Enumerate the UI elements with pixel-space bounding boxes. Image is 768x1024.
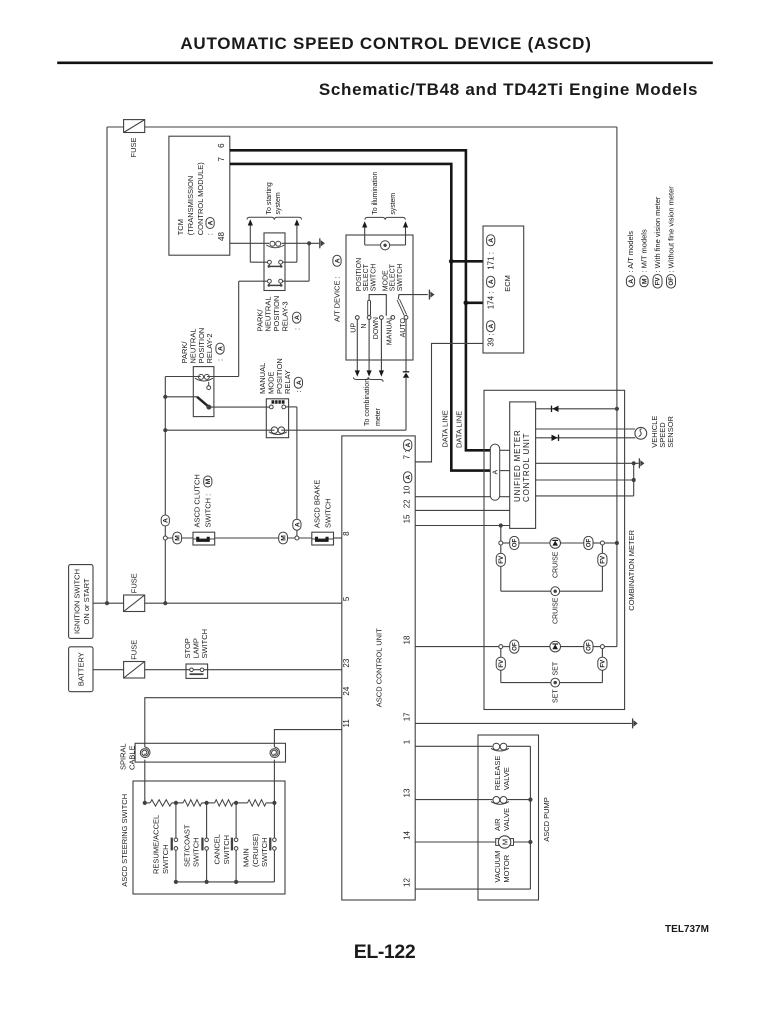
svg-text:24: 24 — [342, 686, 351, 695]
wire: ASCD pin 11 to spiral cable — [274, 730, 341, 747]
svg-text:A: A — [294, 315, 301, 320]
wire: spiral cable right to steering switch rail — [273, 760, 275, 803]
wire: clutch switch to brake switch — [215, 537, 312, 539]
manual mode relay coil — [269, 432, 287, 435]
wire: ignition switch to fuse — [93, 602, 124, 604]
position select switch UP contact — [355, 316, 359, 320]
svg-text:A: A — [296, 380, 303, 385]
svg-text:M: M — [641, 278, 648, 284]
svg-text:: With fine vision meter: : With fine vision meter — [653, 196, 662, 272]
SET LED indicator — [550, 641, 561, 652]
ground (unified meter) — [639, 458, 644, 468]
svg-text:OF: OF — [586, 538, 593, 547]
release valve coil — [491, 748, 509, 751]
legend: M = M/T models — [640, 276, 648, 287]
svg-text:: A/T models: : A/T models — [626, 231, 635, 273]
svg-text:11: 11 — [342, 719, 351, 728]
steering switch resistor rail — [145, 802, 150, 804]
fuse F3 (battery) — [124, 662, 145, 679]
relay-2 switch lever — [165, 396, 197, 398]
svg-text:18: 18 — [402, 635, 411, 644]
svg-text::: : — [216, 359, 225, 361]
legend: A = A/T models — [626, 276, 634, 287]
svg-text:CRUISE: CRUISE — [553, 597, 560, 624]
spiral symbol left — [140, 747, 150, 757]
label: To combination meter — [354, 377, 384, 382]
svg-text:10 :: 10 : — [402, 481, 411, 494]
wire: relay-2 output to manual mode relay contact — [209, 406, 270, 408]
svg-text:A: A — [488, 324, 495, 329]
legend: FV = with fine vision meter — [653, 275, 662, 289]
wire: pin15 drop to CRUISE row — [500, 526, 502, 542]
wire: TCM pin 48 to relay-3 coil — [230, 242, 269, 244]
ASCD control unit box — [342, 436, 415, 900]
mode select switch MANUAL contact — [391, 316, 395, 320]
wire: data line from TCM pin 7 (thick) — [230, 164, 491, 471]
svg-text:14: 14 — [402, 830, 411, 839]
svg-text:1: 1 — [402, 739, 411, 744]
SET FV branch right — [601, 670, 603, 682]
wire: N contact to combination meter — [368, 319, 370, 370]
wire: DOWN contact to combination meter — [380, 319, 382, 370]
svg-text:SET: SET — [553, 689, 560, 703]
wire: battery to fuse — [93, 669, 124, 671]
oval A above clutch row — [161, 515, 169, 526]
svg-text:OF: OF — [586, 642, 593, 651]
wire: ASCD pin 14 to vacuum motor — [415, 841, 498, 843]
park/neutral position relay-2 box — [193, 367, 214, 417]
svg-text:A: A — [628, 279, 635, 284]
CRUISE bulb rail — [501, 590, 551, 592]
svg-text:EL-122: EL-122 — [354, 941, 416, 963]
wire: fuse to stop lamp switch — [145, 669, 186, 671]
svg-text:6: 6 — [217, 143, 226, 148]
svg-text:12: 12 — [402, 878, 411, 887]
main (cruise) switch — [273, 803, 275, 838]
vacuum motor — [496, 839, 499, 846]
illumination lamp — [365, 244, 381, 246]
wire: ASCD pin 13 to air valve — [415, 799, 492, 801]
svg-text:DOWN: DOWN — [373, 317, 380, 339]
wire: UP contact to combination meter — [356, 319, 358, 370]
svg-text:A: A — [493, 470, 500, 475]
relay-3 coil — [266, 245, 284, 248]
svg-text::: : — [292, 328, 301, 330]
wire: unified meter aux 1 — [536, 479, 634, 481]
park/neutral position relay-3 box — [264, 233, 285, 291]
wire: relay-3 contact to starting system (right arrow) — [283, 261, 297, 263]
svg-text:A: A — [208, 220, 215, 225]
unified meter control unit box — [510, 402, 536, 529]
wire: ASCD pin 15 to unified meter — [415, 525, 510, 527]
ground (pin 17) — [633, 718, 638, 728]
TCM (transmission control module) box — [169, 136, 230, 255]
svg-text:A: A — [488, 238, 495, 243]
svg-text:UP: UP — [350, 323, 357, 333]
svg-text:A: A — [217, 346, 224, 351]
svg-text:M: M — [500, 839, 509, 845]
relay-2 coil — [195, 378, 213, 381]
svg-text:CRUISE: CRUISE — [553, 551, 560, 578]
svg-text:A: A — [163, 518, 170, 523]
SET FV branch left — [500, 649, 502, 658]
svg-text:MANUAL: MANUAL — [387, 316, 394, 345]
wire: fuse to ASCD pin 5 — [145, 602, 342, 604]
svg-text:N: N — [361, 324, 368, 329]
CRUISE LED indicator — [550, 538, 561, 549]
wire: unified meter to power feed (diode) — [536, 408, 617, 410]
svg-text:DATA LINE: DATA LINE — [441, 410, 450, 447]
manual mode relay contact bar — [272, 400, 285, 403]
mode select switch AUTO contact + lever — [404, 316, 408, 320]
wire: SET row to power vertical — [604, 646, 617, 648]
svg-text:39 :: 39 : — [487, 333, 496, 346]
wire: fuse supply top rail — [107, 126, 124, 128]
pump common rail — [529, 746, 531, 889]
svg-text:7: 7 — [217, 157, 226, 162]
svg-text:VACUUMMOTOR: VACUUMMOTOR — [493, 851, 511, 883]
svg-text:OF: OF — [512, 642, 519, 651]
relay-2 fixed contact — [207, 386, 211, 390]
oval M on brake row — [279, 532, 288, 544]
wire: data line from TCM pin 6 (thick) — [230, 150, 491, 450]
svg-text:SPIRALCABLE: SPIRALCABLE — [119, 743, 137, 770]
air valve coil — [491, 802, 509, 805]
wire: right supply drop to meter lamps — [616, 127, 618, 647]
svg-text:ASCD PUMP: ASCD PUMP — [542, 797, 551, 842]
wire: CRUISE row to power vertical — [604, 542, 617, 544]
wire: unified meter to speed sensor (lower, diode) — [536, 437, 636, 439]
wire: vertical joining aux wires — [633, 463, 635, 496]
ground (relay-3 coil) — [320, 238, 325, 248]
unified meter connector oval A — [490, 444, 499, 500]
svg-text:A: A — [405, 475, 412, 480]
spiral cable box — [135, 743, 285, 762]
wire: left supply drop to ignition row — [106, 127, 108, 603]
wire: ASCD pin 7 stub — [415, 461, 431, 463]
relay-3 contact row 2 — [268, 279, 272, 283]
oval M on clutch row — [167, 537, 193, 539]
svg-text:A: A — [488, 279, 495, 284]
svg-text:ECM: ECM — [503, 275, 512, 292]
label: To starting system — [247, 217, 302, 219]
svg-text:A: A — [405, 443, 412, 448]
svg-text:: M/T models: : M/T models — [640, 229, 649, 272]
svg-text:: Without fine vision meter: : Without fine vision meter — [667, 186, 676, 273]
spiral symbol right — [270, 747, 280, 757]
junction: pin6 line to ECM 174 — [464, 300, 469, 305]
wire: stop lamp switch to ASCD pin 23 — [207, 669, 341, 671]
svg-text:COMBINATION METER: COMBINATION METER — [627, 529, 636, 610]
label: To illumination system — [365, 217, 405, 219]
svg-text::: : — [294, 390, 303, 392]
svg-text:CANCELSWITCH: CANCELSWITCH — [213, 834, 231, 864]
svg-text:IGNITION SWITCHON or START: IGNITION SWITCHON or START — [73, 569, 91, 634]
TCM connector oval A — [206, 218, 214, 229]
set/coast switch — [206, 803, 208, 838]
svg-text:M: M — [205, 478, 212, 484]
svg-text:AUTOMATIC SPEED CONTROL DEVICE: AUTOMATIC SPEED CONTROL DEVICE (ASCD) — [180, 34, 591, 53]
svg-text:23: 23 — [342, 658, 351, 667]
fuse F2 (ignition) — [124, 595, 145, 612]
svg-text:174 :: 174 : — [487, 292, 496, 310]
wire: relay-3 coil to ground — [282, 242, 320, 244]
svg-text:UNIFIED METERCONTROL UNIT: UNIFIED METERCONTROL UNIT — [513, 429, 531, 502]
wire: unified meter ground — [536, 462, 639, 464]
ASCD pump box — [478, 735, 539, 900]
CRUISE FV branch left — [500, 545, 502, 553]
svg-text:FUSE: FUSE — [129, 640, 138, 660]
svg-text:8: 8 — [342, 531, 351, 536]
position select switch N contact + lever — [367, 316, 371, 320]
oval A above brake row — [293, 519, 301, 530]
wire: manual mode relay coil row — [165, 429, 274, 431]
svg-text:Schematic/TB48 and TD42Ti Engi: Schematic/TB48 and TD42Ti Engine Models — [319, 80, 698, 99]
wire: ASCD pin 10 to unified meter connector — [415, 496, 490, 498]
wire: ASCD pin 22 to unified meter — [415, 509, 510, 511]
svg-text:FV: FV — [498, 659, 505, 668]
manual mode position relay box — [266, 399, 288, 438]
svg-text:17: 17 — [402, 712, 411, 721]
wire: ECM pin 39 to ASCD unit pin 7 — [415, 343, 483, 462]
svg-text:SET: SET — [553, 661, 560, 675]
wire: AUTO contact through diode to relay coil row — [405, 319, 407, 372]
position select switch DOWN contact — [380, 316, 384, 320]
CRUISE FV branch right — [601, 566, 603, 591]
cancel switch — [235, 803, 237, 838]
ASCD clutch switch — [193, 532, 215, 545]
connector circle on ignition feed — [163, 536, 167, 540]
wire: junction down to relay-3 contact — [308, 243, 310, 281]
svg-text:FV: FV — [600, 555, 607, 564]
svg-text:171 :: 171 : — [487, 252, 496, 270]
fuse F1 (main supply) — [124, 120, 145, 133]
CRUISE row rail — [499, 541, 503, 545]
SET bulb rail — [501, 682, 551, 684]
wire: spiral cable left to steering switch rail — [144, 760, 146, 803]
svg-text:A: A — [334, 258, 341, 263]
vehicle speed sensor — [635, 427, 647, 439]
svg-text:13: 13 — [402, 788, 411, 797]
svg-text:7 :: 7 : — [402, 450, 411, 459]
svg-text:22: 22 — [402, 499, 411, 508]
ASCD steering switch box — [133, 781, 285, 894]
svg-text:ASCD STEERING SWITCH: ASCD STEERING SWITCH — [120, 794, 129, 887]
wire: unified meter to speed sensor (upper) — [536, 428, 636, 430]
svg-text:48: 48 — [217, 232, 226, 241]
wire: vertical ignition feed x=165 — [164, 377, 166, 604]
svg-text:FV: FV — [498, 555, 505, 564]
svg-text:5: 5 — [342, 596, 351, 601]
ignition switch box — [69, 565, 93, 639]
wire: ASCD pin 1 to release valve — [415, 745, 492, 747]
battery box — [69, 647, 93, 692]
svg-text:OF: OF — [668, 277, 675, 286]
wire: relay-3 contact 2 to relay-2 coil — [239, 280, 268, 282]
svg-text:TEL737M: TEL737M — [665, 924, 709, 935]
svg-text:BATTERY: BATTERY — [77, 652, 86, 686]
connector circle brake row — [295, 536, 299, 540]
wire: coil row right to relay-3 contact drop — [207, 376, 239, 378]
legend: OF = without fine vision meter — [667, 275, 676, 289]
A/T device box — [346, 235, 413, 360]
junction: pin7 line to ECM 171 — [449, 259, 454, 264]
wire: illumination left arrow — [364, 228, 366, 246]
wire: unified meter aux 2 — [536, 495, 634, 497]
SET row rail — [499, 645, 503, 649]
svg-text:15: 15 — [402, 514, 411, 523]
svg-text:M: M — [281, 535, 288, 541]
wire: ASCD pin 12 return — [415, 888, 530, 890]
combination meter box — [484, 390, 625, 709]
wire: manual mode relay to brake switch vertical — [286, 406, 297, 408]
relay-3 contact row 1 — [268, 260, 272, 264]
svg-text:M: M — [175, 535, 182, 541]
svg-text:DATA LINE: DATA LINE — [454, 411, 463, 448]
svg-text:A/T DEVICE :: A/T DEVICE : — [333, 276, 342, 322]
ASCD brake switch — [312, 532, 334, 545]
junction: pin15 wire to CRUISE lamp row — [499, 523, 503, 527]
wire: coil row left to supply vertical — [165, 376, 200, 378]
svg-text:FUSE: FUSE — [129, 573, 138, 593]
ground (mode select switch) — [429, 290, 434, 300]
wire: ASCD pin 18 to SET row — [415, 646, 499, 648]
wire: brake switch to ASCD pin 8 — [334, 537, 342, 539]
steering switch bottom rail — [176, 881, 275, 883]
svg-text:A: A — [294, 522, 301, 527]
stubs: connector to unified meter unit — [500, 449, 510, 451]
wire: ASCD pin 17 to body ground — [415, 722, 632, 724]
title underline — [57, 61, 713, 64]
wire: illumination right arrow — [405, 228, 407, 246]
svg-text:FV: FV — [655, 276, 662, 285]
manual mode relay contacts — [269, 405, 273, 409]
svg-text:OF: OF — [512, 538, 519, 547]
svg-text:ASCD CONTROL UNIT: ASCD CONTROL UNIT — [375, 628, 384, 707]
svg-text:FV: FV — [600, 659, 607, 668]
ECM box — [483, 226, 524, 353]
wire: ASCD pin 24 to spiral cable — [145, 698, 342, 747]
resume/accel switch — [175, 803, 177, 838]
stop lamp switch — [186, 664, 208, 678]
wire: relay-3 contact to starting system (left arrow) — [250, 261, 267, 263]
svg-text:FUSE: FUSE — [129, 137, 138, 157]
